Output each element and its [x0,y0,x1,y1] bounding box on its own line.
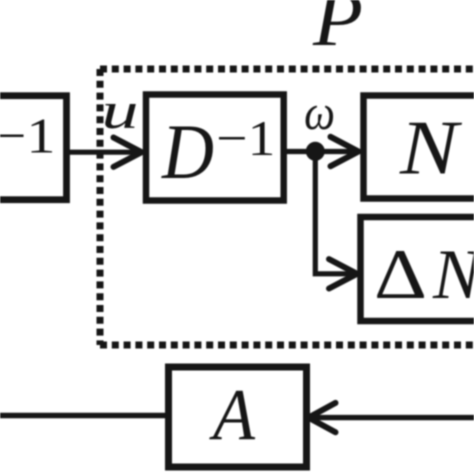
branch wire (node down to Delta-N) [313,151,351,274]
arrowhead into A [309,403,336,432]
arrowhead into Delta-N [329,259,357,288]
wire omega (D^-1 to N) [284,149,352,154]
wire out of A to left edge [0,413,165,418]
svg-text:N: N [432,236,474,314]
svg-text:A: A [209,374,255,455]
wire into A from right edge [311,415,474,420]
svg-text:ω: ω [304,85,335,140]
svg-text:N: N [399,105,462,191]
svg-text:−1: −1 [0,108,56,164]
dotted box P (plant boundary, cut off at right) [100,69,474,345]
node dot (omega junction) [306,142,325,161]
block D^-1 [146,95,284,201]
block Delta-N [361,217,474,321]
svg-text:P: P [312,0,363,62]
block C^-1 (left block, cut off at image left edge) [0,96,67,200]
arrowhead into D^-1 [114,138,142,167]
block A [169,367,307,467]
arrowhead into N [331,137,359,166]
svg-text:Δ: Δ [374,236,427,314]
svg-text:u: u [102,83,139,140]
block N [364,96,474,199]
wire u (left block to D^-1) [66,150,138,155]
